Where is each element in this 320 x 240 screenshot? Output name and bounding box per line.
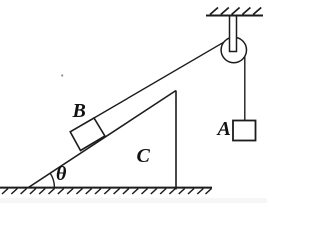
ground (0, 187, 212, 189)
angle theta arc (50, 173, 54, 187)
incline surface of wedge C (28, 91, 176, 188)
label theta (56, 164, 66, 184)
rope from block B to pulley (94, 41, 226, 118)
block A hanging (233, 121, 256, 141)
stray scan speck (61, 74, 63, 76)
rope from pulley to block A (244, 52, 246, 121)
vertical side of wedge C (175, 91, 177, 190)
label B (73, 101, 86, 121)
bottom light strip (0, 198, 267, 203)
block B on incline (70, 118, 105, 151)
pulley bracket (230, 16, 237, 52)
pulley wheel (221, 37, 246, 62)
label C (137, 146, 150, 166)
ceiling (206, 15, 263, 17)
ground hatching (2, 189, 212, 195)
label A (218, 119, 231, 139)
ceiling hatching (210, 8, 261, 15)
